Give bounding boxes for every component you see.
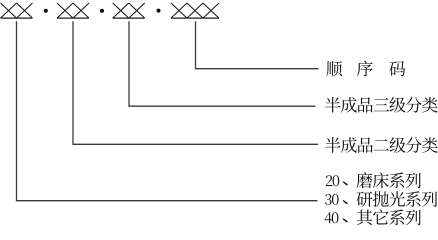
- separator dot 3: [157, 9, 161, 13]
- wire leader 2: group 2 to 半成品二级分类: [73, 21, 318, 144]
- label 半成品二级分类: [325, 137, 438, 153]
- code group 4 "XXX" (sequence number): [171, 3, 219, 18]
- code group 1 "XX" (series code): [1, 3, 33, 18]
- label 20、磨床系列 comma tick: [343, 181, 349, 185]
- label 30、研抛光系列 text: [356, 191, 437, 207]
- wire leader 4: XXX group to 顺序码: [196, 21, 319, 68]
- wire leader 3: group 3 to 半成品三级分类: [129, 21, 316, 106]
- label 30、研抛光系列 digits: [325, 194, 339, 205]
- label 40、其它系列 text: [357, 210, 421, 226]
- label 20、磨床系列 digits: [326, 175, 339, 186]
- label 20、磨床系列 text: [356, 172, 420, 188]
- label 40、其它系列 comma tick: [343, 218, 349, 222]
- label 30、研抛光系列 comma tick: [343, 200, 349, 204]
- code group 2 "XX" (second-level class): [57, 3, 89, 18]
- separator dot 2: [100, 9, 104, 13]
- label 顺序码 (sequence code): [326, 61, 405, 77]
- code group 3 "XX" (third-level class): [113, 3, 145, 18]
- label 40、其它系列 digits: [325, 212, 339, 223]
- separator dot 1: [44, 9, 48, 13]
- wire leader 1: group 1 to series list: [17, 21, 318, 200]
- label 半成品三级分类: [325, 97, 438, 113]
